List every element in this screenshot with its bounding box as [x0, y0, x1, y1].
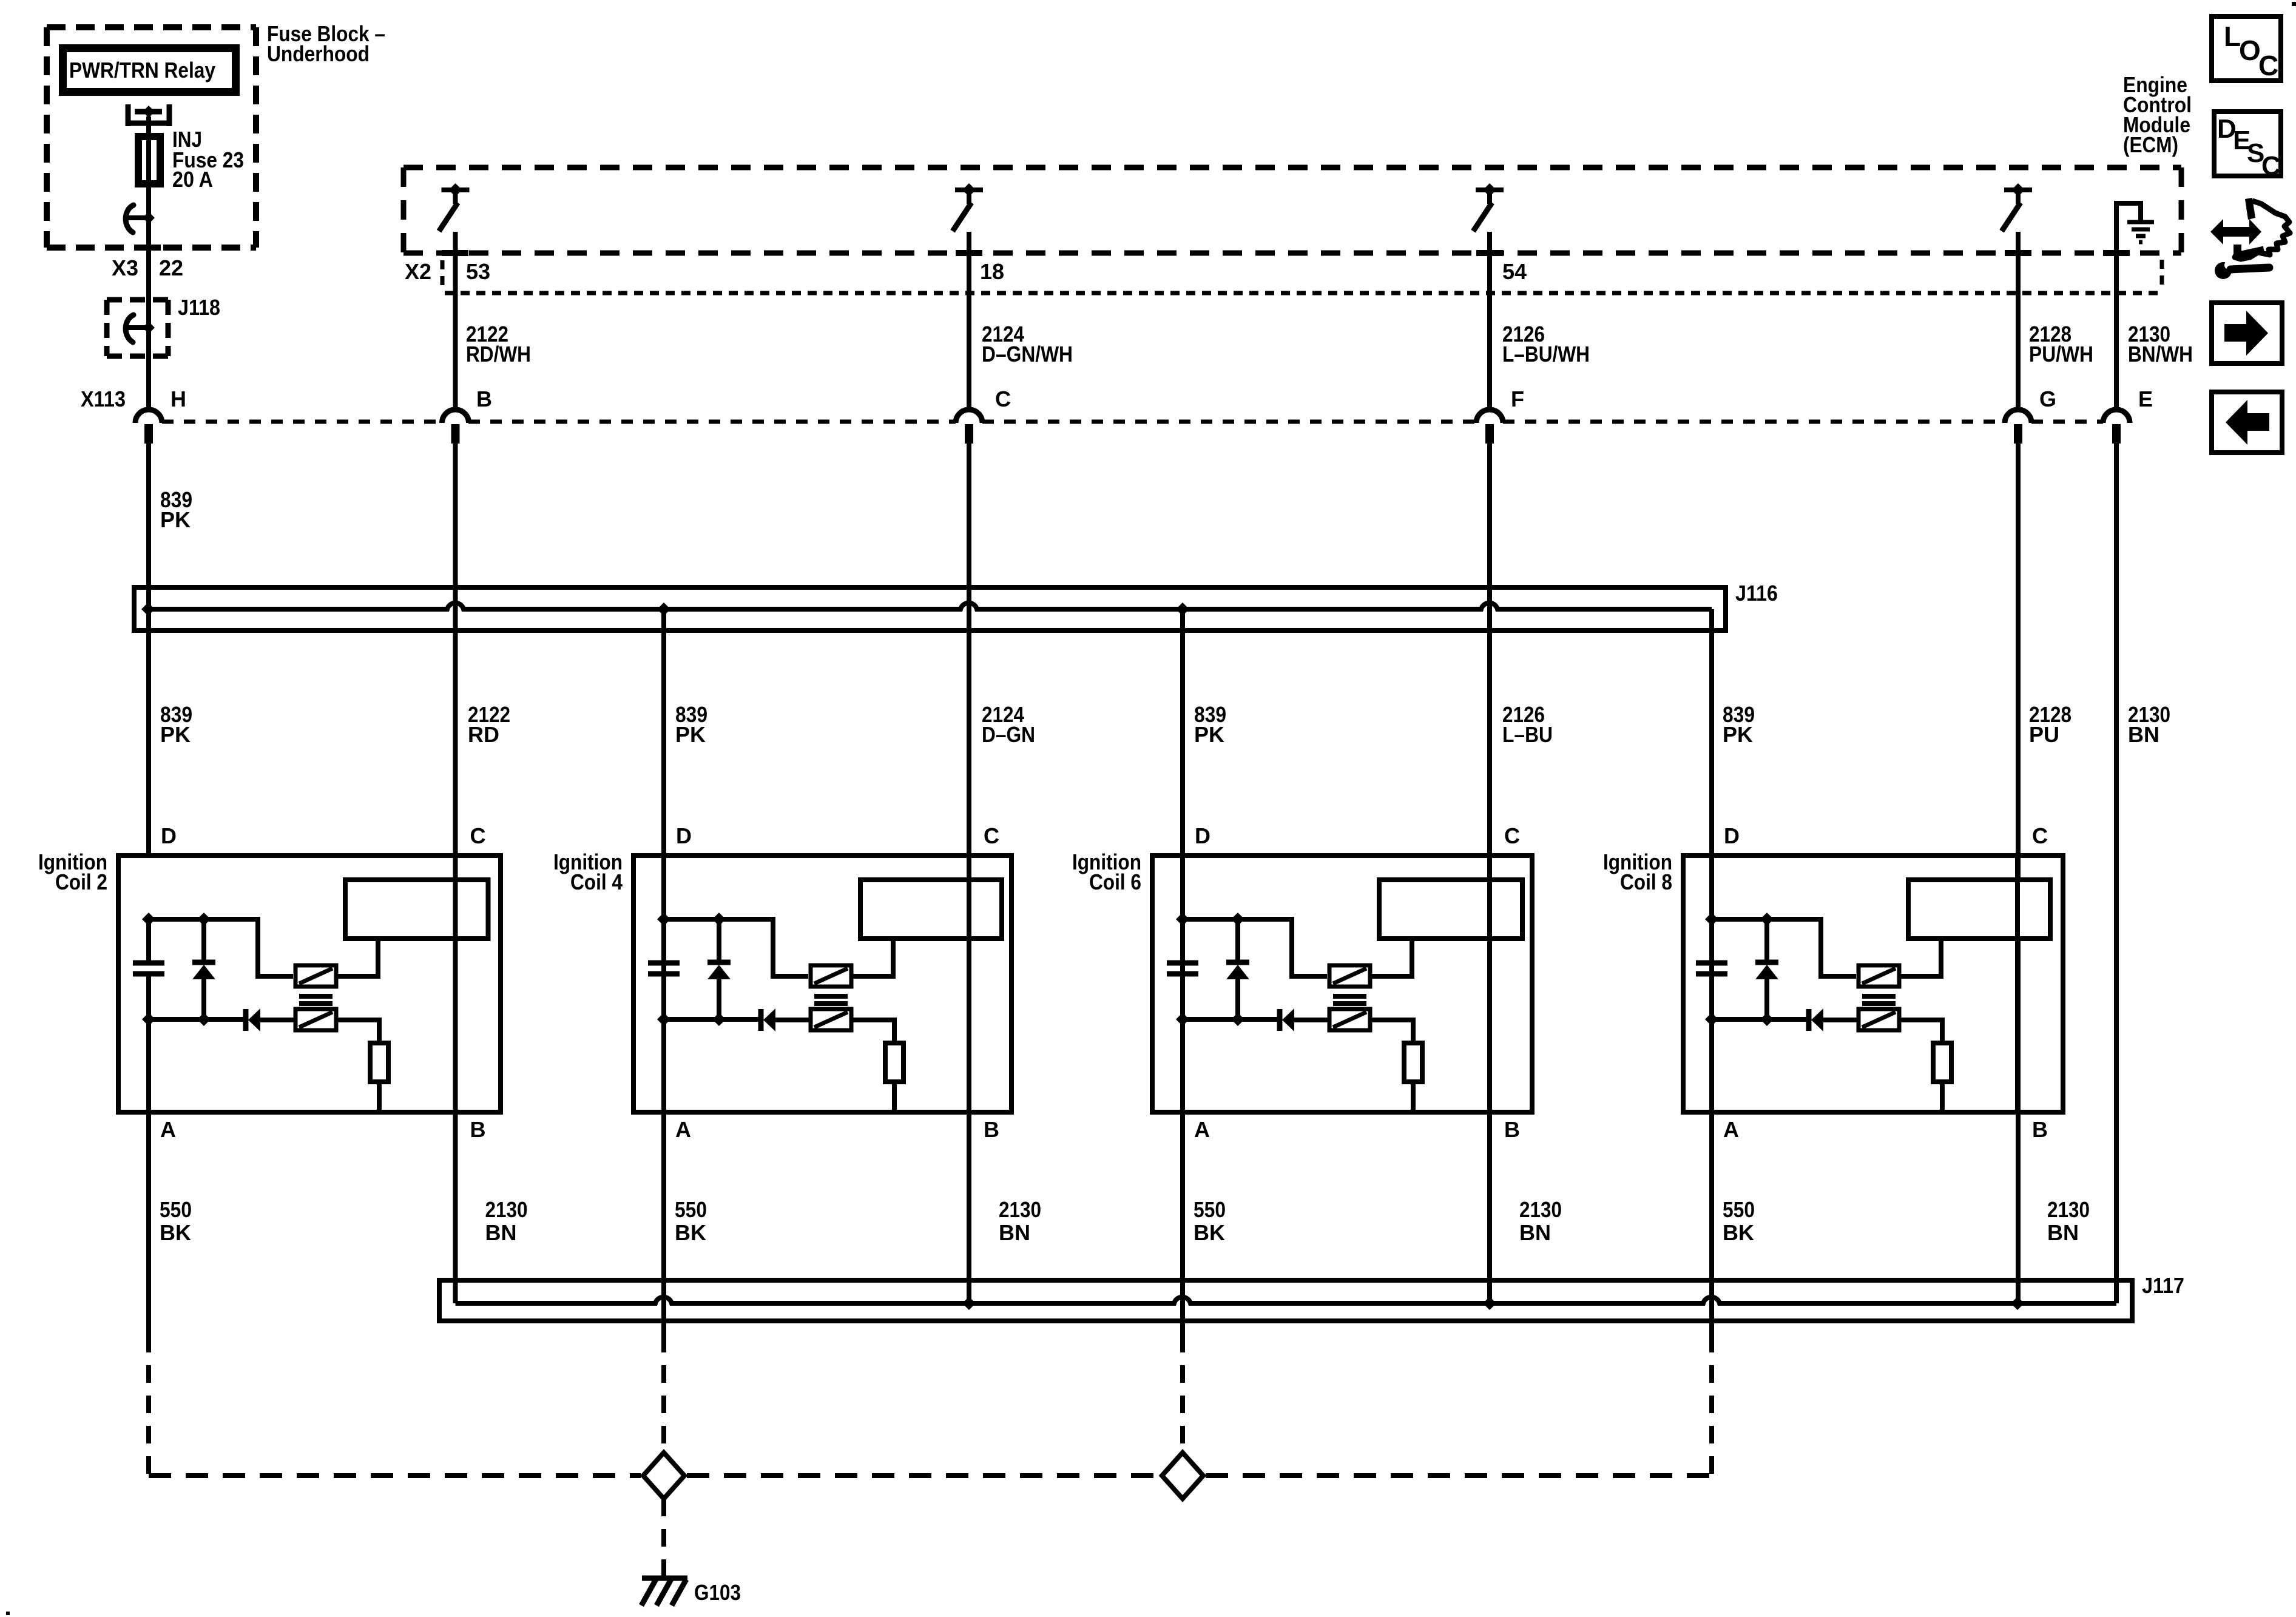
ground G103: [641, 1578, 687, 1605]
coil 6 case outline: [1152, 856, 1532, 1112]
connector X113 pin G: [2005, 410, 2031, 423]
svg-text:PK: PK: [1723, 722, 1753, 747]
coil 2 capacitor: [146, 919, 151, 960]
coil 6 diode: [1277, 1009, 1283, 1031]
Engine Control Module (ECM) dashed enclosure: [403, 167, 2181, 253]
svg-text:53: 53: [466, 259, 490, 284]
svg-text:C: C: [995, 387, 1011, 411]
svg-text:2130: 2130: [2047, 1197, 2090, 1222]
ECM internal ground for pin E: [2116, 203, 2154, 242]
svg-text:(ECM): (ECM): [2123, 132, 2178, 157]
connector X113 pin F: [1476, 410, 1503, 423]
svg-text:550: 550: [675, 1197, 707, 1222]
coil 2 diode: [243, 1009, 249, 1031]
junction J117 coil 8 ground: [2011, 1297, 2024, 1310]
svg-text:J116: J116: [1735, 581, 1778, 606]
junction bottom rail / capacitor: [657, 1013, 670, 1026]
svg-text:BK: BK: [160, 1220, 191, 1245]
junction top rail / capacitor: [142, 913, 155, 926]
coil 8 diode: [1806, 1009, 1812, 1031]
coil 4 internal wire pin C to pin B: [967, 856, 971, 1112]
svg-text:PWR/TRN Relay: PWR/TRN Relay: [69, 58, 215, 83]
svg-text:C: C: [470, 823, 486, 848]
svg-text:O: O: [2239, 35, 2261, 66]
svg-text:Coil 8: Coil 8: [1620, 869, 1672, 894]
svg-text:F: F: [1511, 387, 1524, 411]
svg-text:22: 22: [159, 255, 183, 280]
wire 2128 from ECM switch to X113 G: [2016, 232, 2021, 410]
off-page diamond splice at coil 4 ground: [643, 1453, 684, 1499]
coil 6 internal wire pin C to pin B: [1487, 856, 1492, 1112]
wire crossing ticks on ECM bottom edge: [442, 250, 468, 256]
coil 2 primary winding: [295, 965, 336, 987]
connector X113 dotted line: [162, 420, 442, 424]
svg-text:Coil 6: Coil 6: [1089, 869, 1141, 894]
wire 550 BK coil 2 pin A down: [146, 1112, 151, 1335]
svg-text:X2: X2: [405, 259, 431, 284]
coil 4 core bars: [814, 994, 848, 999]
junction J116 to coil 4 feed: [657, 603, 670, 616]
coil 4 resistor: [885, 1043, 903, 1082]
wire 2130 from ECM ground to X113 E: [2114, 206, 2119, 410]
svg-text:D–GN/WH: D–GN/WH: [982, 342, 1073, 366]
svg-text:D: D: [1195, 823, 1210, 848]
junction bottom rail / capacitor: [1705, 1013, 1718, 1026]
coil 8 primary winding: [1859, 965, 1899, 987]
svg-text:A: A: [1723, 1117, 1739, 1142]
wire 2124 from ECM switch 18 to X113 C: [967, 232, 971, 410]
svg-text:A: A: [160, 1117, 176, 1142]
coil 2 case outline: [118, 856, 501, 1112]
wire 2124 D-GN / 2130 BN through coil 4 C-B to J117: [967, 444, 971, 1303]
scan mark top right: [2292, 2, 2296, 6]
junction top rail / capacitor: [657, 913, 670, 926]
wire 2122 RD / 2130 BN through coil 2 C-B to J117: [453, 444, 458, 1303]
wire 2130 BN from X113 E to J117: [2114, 424, 2119, 1303]
coil 4 diode: [758, 1009, 764, 1031]
coil 2 control module block: [345, 880, 488, 939]
junction dot at relay terminal: [143, 106, 155, 118]
svg-text:L–BU: L–BU: [1502, 722, 1553, 747]
J116 internal bus with hops: [148, 603, 1712, 609]
dashed ground rail 550 BK: [149, 1473, 641, 1478]
wire 2128 PU / 2130 BN through coil 8 C-B to J117: [2016, 444, 2021, 1303]
svg-text:2130: 2130: [485, 1197, 528, 1222]
splice pack J116: [134, 587, 1726, 630]
junction bottom rail / capacitor: [142, 1013, 155, 1026]
wire 839 PK from J116 to coil 8 pin D: [1709, 609, 1714, 1112]
coil 8 capacitor: [1709, 919, 1714, 960]
coil 2 resistor: [370, 1043, 388, 1082]
junction J116 to coil 2 feed: [141, 603, 155, 616]
svg-text:BN: BN: [2128, 722, 2159, 747]
wire 2126 from ECM switch 54 to X113 F: [1487, 232, 1492, 410]
icon box right arrow: [2212, 303, 2282, 363]
svg-text:BN: BN: [1519, 1220, 1551, 1245]
svg-text:Coil 4: Coil 4: [570, 869, 623, 894]
wire 839 PK through X3 pin 22 down to X113: [146, 218, 151, 410]
scan mark bottom left: [6, 1612, 10, 1615]
coil 8 core bars: [1862, 994, 1896, 999]
ECM driver switch for pin 54: [1473, 183, 1504, 231]
coil 6 internal bottom rail: [1183, 1017, 1278, 1022]
coil 8 control module block: [1908, 880, 2050, 939]
coil 6 primary to module wire: [1370, 939, 1412, 976]
svg-text:Coil 2: Coil 2: [55, 869, 107, 894]
splice pack J117: [439, 1280, 2132, 1321]
dashed wire 550 BK coil 8 to ground rail: [1709, 1335, 1714, 1476]
junction bottom rail / capacitor: [1176, 1013, 1189, 1026]
coil 8 resistor: [1933, 1043, 1951, 1082]
svg-text:D: D: [676, 823, 692, 848]
svg-text:L: L: [2224, 21, 2241, 52]
splice connector J118: [107, 300, 168, 356]
svg-text:A: A: [675, 1117, 691, 1142]
svg-text:PU: PU: [2029, 722, 2059, 747]
wire relay to fuse: [146, 116, 151, 220]
svg-text:550: 550: [1723, 1197, 1755, 1222]
svg-text:C: C: [2032, 823, 2048, 848]
relay output terminal (bussed supply): [126, 104, 172, 126]
svg-text:550: 550: [1194, 1197, 1226, 1222]
coil 8 secondary winding: [1859, 1009, 1899, 1030]
svg-text:PK: PK: [160, 722, 191, 747]
svg-text:E: E: [2138, 387, 2153, 411]
relay PWR/TRN Relay: [63, 49, 236, 92]
junction dot below fuse: [143, 212, 155, 224]
coil 6 secondary winding: [1329, 1009, 1370, 1030]
svg-text:PK: PK: [1194, 722, 1224, 747]
connector X113 pin E: [2103, 410, 2130, 423]
connector X2 dotted line: [445, 291, 2158, 295]
svg-text:550: 550: [160, 1197, 192, 1222]
wire 839 PK from J116 to coil 6 pin D: [1180, 609, 1185, 1112]
svg-text:BN: BN: [999, 1220, 1030, 1245]
svg-text:PU/WH: PU/WH: [2029, 342, 2093, 366]
svg-text:BK: BK: [1723, 1220, 1754, 1245]
coil 2 internal top rail: [149, 919, 293, 976]
wire 550 BK coil 8 pin A down: [1709, 1112, 1714, 1335]
coil 4 internal bottom rail: [664, 1017, 760, 1022]
svg-text:B: B: [2032, 1117, 2048, 1142]
junction bottom rail / zener: [1760, 1013, 1774, 1026]
svg-text:C: C: [2258, 50, 2278, 81]
coil 8 internal wire pin C to pin B: [2015, 856, 2020, 1112]
dashed wire 550 BK coil 2 to ground rail: [146, 1335, 151, 1476]
Fuse Block - Underhood dashed enclosure: [47, 27, 256, 248]
ECM driver switch for pin 53: [439, 183, 470, 231]
wire 550 BK coil 6 pin A down: [1180, 1112, 1185, 1335]
svg-text:B: B: [984, 1117, 999, 1142]
junction bottom rail / zener: [197, 1013, 211, 1026]
svg-text:RD/WH: RD/WH: [466, 342, 531, 366]
coil 4 internal top rail: [664, 919, 808, 976]
coil 6 zener diode: [1235, 919, 1240, 962]
coil 4 control module block: [860, 880, 1002, 939]
coil 4 secondary to resistor wire: [851, 1020, 894, 1043]
coil 8 internal bottom rail: [1712, 1017, 1808, 1022]
coil 6 internal top rail: [1183, 919, 1327, 976]
svg-text:D: D: [161, 823, 177, 848]
svg-text:20 A: 20 A: [172, 167, 213, 192]
svg-text:BN: BN: [2047, 1220, 2079, 1245]
svg-text:X3: X3: [112, 255, 138, 280]
junction J116 to coil 6 feed: [1176, 603, 1189, 616]
junction top rail / zener: [197, 913, 211, 926]
junction top rail / zener: [712, 913, 726, 926]
junction J117 coil 4 ground: [962, 1297, 976, 1310]
svg-text:18: 18: [980, 259, 1004, 284]
svg-text:C: C: [984, 823, 999, 848]
ECM driver switch for pin 18: [953, 183, 983, 231]
coil 8 zener diode: [1764, 919, 1769, 962]
svg-text:C: C: [1504, 823, 1520, 848]
svg-text:BN/WH: BN/WH: [2128, 342, 2193, 366]
coil 6 control module block: [1379, 880, 1522, 939]
svg-text:J117: J117: [2142, 1273, 2184, 1298]
svg-text:B: B: [470, 1117, 486, 1142]
wire 839 PK from J116 to coil 4 pin D: [661, 609, 666, 1112]
svg-text:B: B: [1504, 1117, 1520, 1142]
junction J117 coil 6 ground: [1483, 1297, 1496, 1310]
svg-text:2130: 2130: [1519, 1197, 1562, 1222]
J117 internal bus with hops: [456, 1297, 2117, 1303]
svg-text:L–BU/WH: L–BU/WH: [1502, 342, 1590, 366]
coil 4 primary to module wire: [851, 939, 893, 976]
coil 6 primary winding: [1329, 965, 1370, 987]
coil 2 zener diode: [201, 919, 206, 962]
svg-text:C: C: [2261, 151, 2281, 181]
coil 4 primary winding: [811, 965, 851, 987]
svg-text:X113: X113: [81, 387, 126, 411]
svg-text:A: A: [1194, 1117, 1210, 1142]
coil 2 secondary to resistor wire: [336, 1020, 379, 1043]
svg-text:H: H: [171, 387, 186, 411]
svg-text:G103: G103: [694, 1580, 741, 1605]
svg-text:B: B: [476, 387, 492, 411]
coil 2 core bars: [299, 994, 333, 999]
X3 pin 22 crossing tick: [137, 245, 161, 251]
coil 4 secondary winding: [811, 1009, 851, 1030]
svg-text:BK: BK: [1194, 1220, 1225, 1245]
junction top rail / capacitor: [1705, 913, 1718, 926]
coil 8 internal top rail: [1712, 919, 1856, 976]
coil 8 primary to module wire: [1899, 939, 1941, 976]
wire 550 BK coil 4 pin A down: [661, 1112, 666, 1335]
junction bottom rail / zener: [712, 1013, 726, 1026]
coil 6 core bars: [1333, 994, 1366, 999]
wire 2122 from ECM switch 53 to X113 B: [453, 232, 458, 410]
coil 4 capacitor: [661, 919, 666, 960]
junction bottom rail / zener: [1231, 1013, 1244, 1026]
coil 2 secondary winding: [295, 1009, 336, 1030]
ECM driver switch for pin G circuit 2128: [2002, 183, 2032, 231]
coil 8 secondary to resistor wire: [1899, 1020, 1942, 1043]
coil 4 case outline: [633, 856, 1011, 1112]
icon box DESC: [2214, 112, 2281, 176]
junction top rail / zener: [1231, 913, 1244, 926]
off-page diamond splice at coil 6 ground: [1162, 1453, 1203, 1499]
coil 4 zener diode: [717, 919, 721, 962]
connector X113 pin C: [956, 410, 982, 423]
dashed wire 550 BK coil 6 to ground rail: [1180, 1335, 1185, 1453]
connector clip in fuse block: [126, 205, 133, 232]
coil 8 case outline: [1683, 856, 2063, 1112]
coil 2 primary to module wire: [336, 939, 378, 976]
wire 2126 L-BU / 2130 BN through coil 6 C-B to J117: [1487, 444, 1492, 1303]
svg-text:G: G: [2039, 387, 2056, 411]
svg-text:RD: RD: [468, 722, 499, 747]
svg-text:D: D: [1724, 823, 1740, 848]
coil 6 secondary to resistor wire: [1370, 1020, 1413, 1043]
fuse INJ Fuse 23 20 A: [137, 135, 162, 186]
coil 6 resistor: [1404, 1043, 1422, 1082]
junction dot J118: [143, 322, 155, 334]
coil 2 internal bottom rail: [149, 1017, 245, 1022]
dashed wire 550 BK coil 4 to ground rail: [661, 1335, 666, 1453]
svg-text:J118: J118: [178, 295, 220, 320]
connector X113 pin B: [442, 410, 469, 423]
connector clip J118: [126, 315, 133, 342]
svg-text:2130: 2130: [999, 1197, 1041, 1222]
dashed wire diamond to G103: [661, 1499, 666, 1576]
junction top rail / capacitor: [1176, 913, 1189, 926]
svg-text:54: 54: [1502, 259, 1527, 284]
wire 839 PK from X113 H to ignition coil 2 pin D: [146, 444, 151, 856]
repair icon: double arrow, hand outline, wrench: [2210, 198, 2290, 279]
coil 6 capacitor: [1180, 919, 1185, 960]
coil 2 internal wire pin C to pin B: [453, 856, 458, 1112]
icon box left arrow: [2212, 392, 2282, 453]
svg-text:PK: PK: [160, 507, 191, 532]
icon box LOC: [2212, 16, 2281, 81]
svg-text:PK: PK: [675, 722, 706, 747]
svg-text:D–GN: D–GN: [982, 722, 1035, 747]
connector X113 pin H: [135, 410, 162, 423]
svg-text:BK: BK: [675, 1220, 706, 1245]
svg-text:Underhood: Underhood: [267, 41, 370, 66]
junction top rail / zener: [1760, 913, 1774, 926]
svg-text:BN: BN: [485, 1220, 517, 1245]
